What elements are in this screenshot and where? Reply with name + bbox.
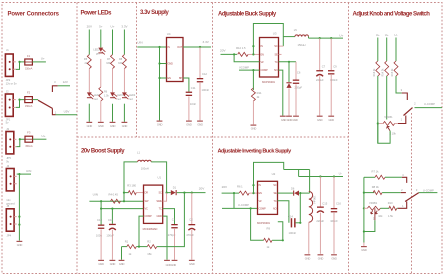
junction R2 tap [183,192,185,194]
svg-text:GND: GND [329,118,335,122]
junction inv tie row2 [252,192,254,194]
junction COMP divider [138,246,140,248]
junction VR2 rail [363,207,365,209]
ground C13 [110,260,116,261]
junction C9 [330,37,332,39]
wire row2 to diode [278,192,294,194]
svg-text:C7: C7 [322,64,326,68]
ground C1 [172,260,178,261]
wire D4 to ground [288,88,290,115]
wire boost tie vertical [252,46,254,54]
svg-text:red: red [129,98,133,101]
wire U5V [56,114,78,116]
svg-text:R13 2k: R13 2k [373,68,376,77]
potentiometer VR2 [367,206,380,210]
LED3 [110,92,115,96]
resistor R12 [238,52,249,56]
wire BP to C11 [183,78,189,92]
wire R3 left [124,192,129,194]
svg-text:C13: C13 [108,218,113,222]
wire boost input [89,200,143,202]
svg-text:20V: 20V [222,185,228,189]
resistor R5 [87,55,91,69]
wire U-COMP out (S2) [415,107,443,109]
resistor R3 [128,191,136,195]
capacitor C2 (polarized) [188,224,195,225]
svg-text:GND: GND [17,243,23,247]
inductor L2 (vertical) [309,191,313,222]
wire C6 top [295,62,297,80]
wire knob rail 3 top [395,38,397,62]
svg-text:12v or 5v: 12v or 5v [6,82,18,86]
svg-text:Adjust Knob and Voltage Switch: Adjust Knob and Voltage Switch [353,12,431,18]
wire R1 left to ground [122,246,127,248]
svg-text:LED3: LED3 [117,94,124,97]
inductor L1 [138,160,152,162]
connector JP5 [6,132,14,154]
switch S1 throw 3 [52,86,57,92]
wire C13 to ground [111,230,113,260]
svg-text:GND: GND [98,262,104,266]
resistor R1 [127,245,137,249]
ground D4 [286,116,292,117]
svg-text:R10: R10 [388,201,393,205]
capacitor C10 [98,225,104,226]
regulator U3 [260,38,279,78]
svg-text:GND: GND [110,124,116,128]
svg-text:BP: BP [179,76,183,80]
svg-text:GND: GND [186,123,192,127]
svg-text:TC: TC [159,207,162,211]
wire rail 4 mid [123,69,125,93]
ground knob rail [361,246,367,247]
svg-text:150mA: 150mA [25,104,33,108]
capacitor C16 [331,208,337,209]
wire C1 to ground [174,229,176,260]
junction JP6 [18,173,20,175]
wire VCOMP [239,69,260,71]
wire L1 left leg [124,162,137,201]
junction buck input [233,53,235,55]
wire rail 2 mid [100,59,102,87]
wire COMP down [139,216,144,247]
wire U- rail [299,176,343,178]
svg-text:150uH: 150uH [298,43,306,47]
wire knob rail 1 down [377,76,379,143]
junction C13 [111,208,113,210]
svg-text:JP5: JP5 [6,156,11,160]
ground LED rail 1 [86,122,92,123]
wire C16 to ground [333,213,335,254]
wire rail 4 bottom [123,104,125,122]
svg-text:GND: GND [110,262,116,266]
svg-text:COMP: COMP [261,68,268,72]
junction U-COMP [250,207,252,209]
wire C16 top [333,177,335,209]
wire JP5 pin tie [16,139,25,146]
connector JP2 [5,54,13,76]
svg-text:GND GND GND: GND GND GND [281,118,298,122]
svg-text:EN: EN [168,76,172,80]
svg-text:GND: GND [331,256,337,260]
svg-text:20v Boost Supply: 20v Boost Supply [81,149,125,155]
wire knob rail 2 top [386,38,388,62]
regulator U1 [144,185,163,223]
capacitor C11 [186,92,192,93]
wire C6 to ground [295,84,297,115]
svg-text:R3 180: R3 180 [127,184,136,188]
ground L2 [305,254,311,255]
ground LED rail 4 [122,122,128,123]
VR2 wiper return [374,208,376,220]
wire JP1 pin tie [16,100,25,108]
wire SW down [309,170,311,193]
fuse F2 [25,97,33,103]
svg-text:20V: 20V [220,49,226,53]
wire knob rail 3 elbow [396,76,402,93]
svg-text:12V: 12V [63,80,68,84]
svg-text:R9: R9 [267,226,271,230]
svg-text:GNDGND: GNDGND [166,263,177,267]
connector JP4 [6,209,14,231]
fuse F1 [25,59,33,65]
svg-text:100nF: 100nF [202,88,210,92]
svg-text:R8 3k: R8 3k [372,185,380,189]
wire EN tie [234,54,259,61]
svg-text:JP4: JP4 [7,234,12,238]
svg-text:Adjustable Buck Supply: Adjustable Buck Supply [218,12,277,18]
inductor L5 [295,35,309,37]
wire diode in [167,192,171,194]
divider between Power Connectors and Power LEDs [76,3,78,274]
wire C10 to ground [100,229,102,259]
wire F3 to U+ [33,138,47,140]
svg-text:C9: C9 [333,64,337,68]
wire inv tie vertical [253,185,255,193]
svg-text:MCP16301: MCP16301 [257,221,270,225]
wire JP4 to ground [18,225,20,241]
svg-text:VCOMP: VCOMP [239,65,249,69]
svg-text:R12 1.5: R12 1.5 [236,46,246,50]
svg-text:R4 0.45: R4 0.45 [109,192,119,196]
wire C11 to ground [188,97,190,121]
svg-text:150mA: 150mA [25,66,33,70]
svg-text:IN: IN [168,45,171,49]
wire C2 top [191,193,193,224]
regulator U2 [258,181,278,214]
wire R1-R2 mid [136,246,147,248]
svg-text:3.3v Supply: 3.3v Supply [140,10,170,16]
svg-text:12v: 12v [6,198,11,202]
VR2 wiper arrows [371,211,378,214]
ground C2 [189,260,195,261]
wire U- drop [298,170,300,177]
ground LED rail 2 [98,122,104,123]
wire buck input [221,53,238,55]
junction JP4 pin2 [18,224,20,226]
ground U3 gnd [280,116,286,117]
wire FB elbow (inv) [278,201,289,223]
wire inv boost loop [254,162,284,185]
svg-text:UIN: UIN [26,169,31,173]
svg-text:IN: IN [261,44,264,48]
wire 12V [58,85,70,87]
svg-text:R11: R11 [257,91,262,95]
wire R2 to rail [157,193,185,247]
svg-text:R1: R1 [125,239,129,243]
svg-text:330: 330 [106,62,111,65]
svg-text:TC: TC [274,60,277,64]
svg-text:Power Connectors: Power Connectors [8,12,60,18]
wire TC to C1 [163,209,175,224]
wire VCOMP down [252,70,254,90]
svg-text:U+: U+ [111,25,115,29]
junction R3 tap [123,192,125,194]
wire R1 gnd leg [121,247,123,260]
wire C15 to ground [319,213,321,254]
svg-text:U5V: U5V [64,110,70,114]
svg-text:NO: NO [273,206,277,210]
svg-text:U4: U4 [167,32,171,36]
capacitor C1 [171,224,177,225]
svg-text:U-: U- [339,171,342,175]
wire rail 2 bottom [100,101,102,122]
inner divider bottom-right [411,113,413,274]
ground below JP4 [17,241,23,242]
svg-text:U+: U+ [339,33,343,37]
wire U3 gnd pin [279,70,283,116]
wire FB down [288,62,290,82]
wire LED rail 3 top [112,30,114,55]
ground C15 [318,254,324,255]
ground C11 [186,121,192,122]
ground LED rail 3 [110,122,116,123]
wire 20V rail [177,192,206,194]
wire C9 to ground [330,75,332,116]
svg-text:C16: C16 [336,201,341,205]
junction 3.3V out [199,46,201,48]
svg-text:SC: SC [158,191,162,195]
junction wiper return [363,230,365,232]
junction C7 [319,37,321,39]
svg-text:C15: C15 [322,201,327,205]
wire LED rail 1 top [88,30,90,55]
wire EN/GND net [160,47,167,78]
svg-text:F2: F2 [27,91,31,95]
wire diode node [300,192,310,194]
svg-text:U-COMP: U-COMP [423,188,434,192]
wire R10 right [397,207,398,209]
svg-text:GND: GND [361,248,367,252]
svg-text:20V: 20V [87,25,92,29]
svg-text:GND: GND [119,262,125,266]
svg-text:3.3V: 3.3V [203,40,210,44]
svg-text:C10: C10 [97,218,102,222]
capacitor C15 (polarized) [317,207,324,208]
svg-text:U+: U+ [376,33,380,37]
svg-text:U+: U+ [385,33,389,37]
wire C7 top [319,38,321,70]
svg-text:IN: IN [259,183,262,187]
svg-text:20V: 20V [199,186,205,190]
junction VC tap [100,200,102,202]
svg-text:GND: GND [98,124,104,128]
wire R7 right [385,176,402,178]
wire C13 top [111,209,113,224]
wire SW top run [284,169,310,171]
svg-text:D1: D1 [173,186,177,190]
svg-text:GND: GND [87,124,93,128]
junction C10 [100,208,102,210]
svg-text:GND: GND [318,256,324,260]
switch S1 pin 1 [52,108,55,114]
junction JP4 pin1 [18,216,20,218]
switch S3 throw 4 [402,177,407,183]
svg-text:JP1: JP1 [6,117,11,121]
svg-text:grn: grn [96,53,100,56]
wire C10 top [100,209,102,225]
switch S3 throw 2 [401,192,406,194]
svg-text:SWE: SWE [156,199,162,203]
svg-text:U1: U1 [158,175,162,179]
junction boost tie row1 [252,45,254,47]
svg-text:VR2B1: VR2B1 [369,201,378,205]
wire C9 top [330,38,332,70]
junction C15 [319,175,321,177]
wire SW to coil [283,36,295,38]
wire down to JP4 [18,174,20,225]
wire R9 up [278,222,283,241]
junction JP1 [18,99,20,101]
switch S3 pin 1 [398,202,407,209]
svg-text:VC: VC [145,207,149,211]
svg-text:TC: TC [273,199,276,203]
svg-text:F1: F1 [27,54,31,58]
svg-text:U-COMP: U-COMP [238,203,249,207]
ground R1 [119,260,125,261]
LED1 [87,92,92,96]
wire F1 to U+ [32,61,46,63]
wire R11 to ground [252,101,254,124]
wire VC drop [100,201,102,208]
wire VR2 to R10 [380,207,389,209]
svg-text:C6: C6 [297,70,301,74]
ground C7 [317,116,323,117]
fuse F3 [25,136,33,142]
svg-text:R7 1k: R7 1k [372,169,380,173]
junction boost tie row2 [252,53,254,55]
wire input drop [233,193,235,208]
resistor R8 [373,191,382,195]
junction inv input [233,192,235,194]
ground C16 [331,254,337,255]
svg-text:GND: GND [197,123,203,127]
svg-text:Power LEDs: Power LEDs [81,11,113,17]
capacitor C13 (polarized) [109,224,116,225]
svg-text:EN: EN [261,52,265,56]
switch S1 lever [38,100,52,108]
wire R9 right [272,239,283,241]
junction UIN/EN [158,46,160,48]
svg-text:100uF: 100uF [106,234,114,238]
capacitor C14 (horizontal) [291,218,293,227]
svg-text:COMP: COMP [145,214,152,218]
svg-text:red: red [94,98,98,101]
junction inv tie row1 [252,184,254,186]
svg-text:MCP16301: MCP16301 [262,80,275,84]
LED2 [98,48,103,52]
svg-text:GND: GND [157,214,162,218]
switch S3 lever [405,193,419,202]
LED4 [122,92,127,96]
wire U4 out [183,46,211,48]
horizontal divider at mid height [77,136,349,138]
svg-text:150mA: 150mA [25,144,33,148]
resistor R8 [122,55,126,69]
wire LED rail 2 top [100,30,102,48]
potentiometer VR1 [383,122,395,126]
wire JP2 pin tie [16,62,25,70]
wire rail to ground stub [363,243,365,246]
svg-text:JP2: JP2 [6,78,11,82]
svg-text:15k: 15k [147,252,152,256]
junction R9 [282,239,284,241]
wire SW node down [299,193,301,223]
wire UIN out [17,173,31,175]
wire C15 top [319,177,321,207]
VR1 wiper arrow [387,126,390,130]
svg-text:LED4: LED4 [129,94,136,97]
svg-text:MC34063AD: MC34063AD [143,227,158,231]
svg-text:U+: U+ [41,57,45,61]
wire R6 to U2 [249,192,257,194]
svg-text:5+: 5+ [99,25,103,29]
svg-text:COMP: COMP [259,206,266,210]
svg-text:UIN: UIN [137,41,142,45]
svg-text:100nF: 100nF [289,231,297,235]
resistor R7 [375,175,385,179]
resistor R14 [385,61,389,76]
wire knob rail 1 top [377,38,379,62]
junction JP2 [18,61,20,63]
svg-text:SC: SC [274,44,278,48]
svg-text:R2: R2 [147,239,151,243]
ground R11 [251,125,257,126]
svg-text:D6: D6 [291,187,295,191]
svg-text:R15 2k: R15 2k [391,68,394,77]
connector JP1 [5,94,13,116]
junction FB [288,61,290,63]
wire L2 to ground [308,222,310,254]
wire SW tie [163,193,167,202]
wire row1 stub [279,45,284,47]
wire knob rail 2 down [386,76,388,120]
junction C16 [333,175,335,177]
svg-text:U2: U2 [272,172,276,176]
svg-text:GND: GND [122,124,128,128]
wire VR1 return U [378,124,390,144]
wire rail 3 bottom [112,104,114,122]
switch S2 pin 3 [402,93,408,100]
svg-text:10k: 10k [378,214,383,218]
junction VCOMP [252,69,254,71]
svg-text:330: 330 [118,62,123,65]
svg-text:R14 2k: R14 2k [382,68,385,77]
svg-text:EN: EN [259,191,263,195]
wire U-COMP row [222,207,258,209]
junction EN down [158,77,160,79]
wire UIN to U4 [137,46,166,48]
